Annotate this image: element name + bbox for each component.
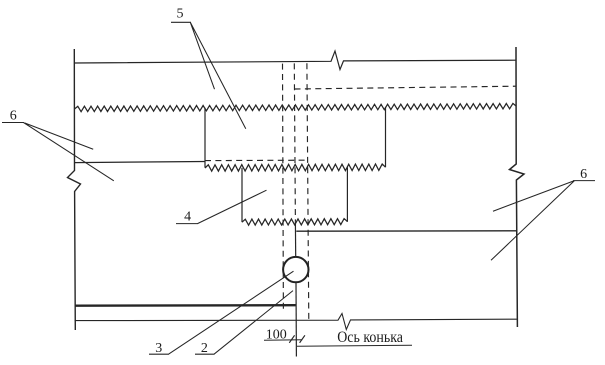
svg-text:4: 4 <box>184 210 191 225</box>
svg-text:6: 6 <box>580 167 587 182</box>
svg-text:Ось конька: Ось конька <box>337 329 403 346</box>
svg-text:6: 6 <box>10 108 17 123</box>
svg-text:2: 2 <box>201 341 208 356</box>
svg-text:3: 3 <box>155 341 162 356</box>
svg-text:100: 100 <box>266 328 287 343</box>
svg-text:5: 5 <box>177 7 184 22</box>
